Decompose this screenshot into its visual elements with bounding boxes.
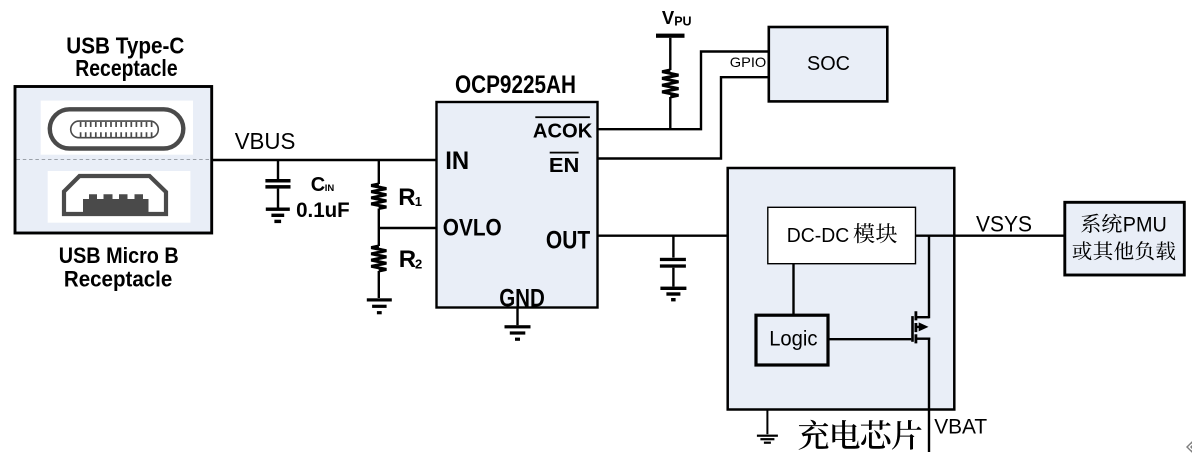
label or other loads [1073, 241, 1176, 260]
wire ACOK to SOC [598, 52, 769, 130]
svg-text:Receptacle: Receptacle [75, 55, 177, 81]
transistor Q1 [913, 236, 931, 344]
capacitor CIN [265, 160, 290, 208]
wire DC-DC to Logic [792, 264, 794, 315]
svg-text:Receptacle: Receptacle [64, 266, 172, 291]
dashed divider [17, 159, 211, 161]
wire OUT [598, 234, 768, 236]
svg-text:ACOK: ACOK [533, 120, 593, 142]
svg-text:VBUS: VBUS [235, 128, 296, 154]
svg-text:USB Micro B: USB Micro B [59, 243, 179, 268]
svg-text:SOC: SOC [807, 53, 850, 75]
resistor RPU [662, 38, 678, 129]
USB receptacle box [15, 87, 212, 234]
svg-text:V: V [662, 7, 675, 28]
svg-text:IN: IN [325, 183, 335, 194]
label USB Micro B Receptacle [59, 243, 179, 292]
ground for IC GND [505, 308, 531, 341]
resistor R1 [371, 160, 386, 228]
capacitor COUT [660, 236, 686, 287]
svg-text:VBAT: VBAT [934, 415, 987, 438]
Logic box [756, 315, 828, 365]
svg-text:PMU: PMU [1123, 213, 1167, 236]
svg-text:PU: PU [674, 15, 691, 29]
ground for R2 [367, 298, 392, 314]
wire VBAT [928, 338, 930, 453]
svg-text:R: R [398, 184, 415, 211]
wire Logic to gate [828, 338, 911, 340]
system PMU box [1065, 202, 1185, 275]
ground for charger block [757, 409, 778, 443]
svg-text:2: 2 [415, 256, 422, 271]
USB Micro B connector icon [48, 171, 191, 223]
ground for COUT [660, 287, 686, 302]
wire EN to SOC [598, 77, 769, 158]
label R2 [399, 246, 423, 273]
svg-text:R: R [399, 246, 416, 273]
op-amp U1 OCP9225AH body [437, 102, 598, 308]
svg-text:GPIO: GPIO [730, 54, 767, 70]
pin ACOK [533, 116, 593, 142]
wire VBUS [213, 159, 437, 161]
svg-text:C: C [311, 174, 325, 196]
svg-text:0.1uF: 0.1uF [296, 199, 350, 222]
corner resize glyph [1186, 440, 1192, 453]
label USB Type-C Receptacle [66, 32, 184, 81]
label charging chip [799, 420, 922, 450]
svg-text:Logic: Logic [769, 328, 817, 351]
charger block box [728, 168, 955, 410]
svg-text:VSYS: VSYS [976, 211, 1032, 236]
wire OVLO [379, 227, 437, 229]
svg-text:GND: GND [499, 284, 545, 312]
wire VSYS [916, 234, 1065, 236]
svg-text:IN: IN [445, 147, 469, 175]
svg-text:OUT: OUT [546, 227, 590, 255]
svg-text:EN: EN [549, 155, 580, 177]
label CIN [311, 174, 335, 196]
ground for CIN [266, 208, 290, 224]
USB Type-C connector icon [41, 101, 193, 155]
SOC box [769, 27, 888, 101]
svg-text:OVLO: OVLO [443, 215, 502, 242]
resistor R2 [371, 228, 386, 298]
DC-DC module box [768, 207, 916, 263]
label R1 [398, 184, 422, 211]
svg-text:OCP9225AH: OCP9225AH [455, 71, 576, 99]
svg-text:1: 1 [415, 194, 422, 209]
label system PMU [1081, 213, 1167, 236]
label DC-DC module [787, 223, 897, 247]
pin EN [549, 152, 580, 177]
svg-text:DC-DC: DC-DC [787, 224, 850, 247]
power VPU [656, 7, 692, 38]
